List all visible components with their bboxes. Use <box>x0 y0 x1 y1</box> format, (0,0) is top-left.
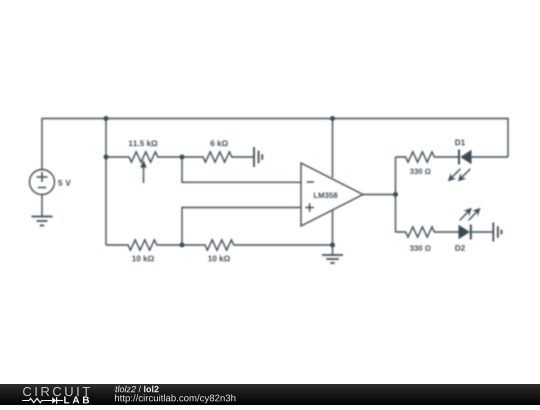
wire op-amp V+ pin <box>332 119 334 178</box>
resistor R2 6k <box>182 152 254 162</box>
resistor R3 10k <box>106 240 182 250</box>
resistor R4 10k <box>182 240 333 250</box>
label D1 <box>455 140 465 146</box>
ground below op-amp <box>322 255 343 263</box>
wire branch vertical D1/D2 <box>395 157 397 232</box>
label 330 Ohm bottom <box>410 245 431 250</box>
LED D1 <box>459 150 508 165</box>
wire op-amp output <box>363 194 396 196</box>
CircuitLab logo <box>0 384 110 405</box>
op-amp U1 LM358 <box>301 163 363 226</box>
node junction bottom row / plus-input <box>180 243 185 248</box>
LED D2 <box>459 225 494 240</box>
node junction V- / bottom row <box>330 243 335 248</box>
potentiometer R1 11.5k <box>106 152 182 183</box>
footer bar <box>0 384 540 405</box>
ground right-facing at R2 <box>254 147 262 167</box>
resistor R5 330 top <box>396 152 460 162</box>
label 10 kOhm right <box>208 255 230 261</box>
node junction output branch <box>393 192 398 197</box>
wire to op-amp inverting input <box>182 157 301 182</box>
LED D2 emission arrows <box>460 208 481 221</box>
node junction top rail / x=106 <box>104 116 109 121</box>
wire V1 bottom to ground <box>41 195 43 217</box>
ground right-facing at D2 <box>493 223 501 242</box>
label 5 V <box>58 180 71 186</box>
label LM358 <box>314 193 338 199</box>
label D2 <box>455 245 465 251</box>
LED D1 emission arrows <box>448 169 471 182</box>
resistor R6 330 bottom <box>396 227 459 237</box>
label 6 kOhm <box>211 140 228 146</box>
ground below V1 <box>32 217 53 226</box>
wire op-amp V- pin to ground <box>332 210 334 255</box>
label 330 Ohm top <box>410 169 431 174</box>
label 11.5 kOhm <box>129 140 158 146</box>
node junction top rail / op-amp V+ <box>330 116 335 121</box>
voltage source V1 5V <box>30 170 55 195</box>
wire left vertical bus x=106 down to bottom row <box>105 119 107 246</box>
wire top power rail from V1 to D1 branch <box>42 119 508 170</box>
wire to op-amp non-inverting input <box>182 208 301 246</box>
footer title text tlolz2 / lol2 and url <box>0 384 540 405</box>
label 10 kOhm left <box>132 255 154 261</box>
node junction x=106 row1 <box>104 155 109 160</box>
node junction pot/6k/minus-input <box>180 155 185 160</box>
